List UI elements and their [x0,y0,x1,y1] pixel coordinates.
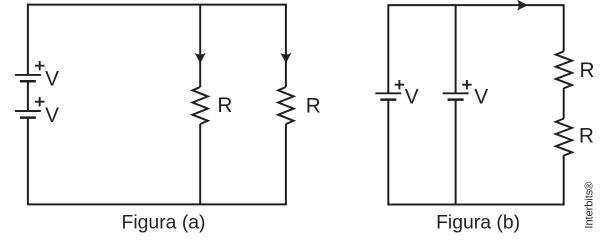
svg-text:Figura (b): Figura (b) [436,211,520,233]
svg-text:Figura (a): Figura (a) [121,211,205,233]
svg-text:R: R [217,94,232,117]
svg-text:R: R [306,94,321,117]
svg-text:R: R [579,125,594,148]
svg-text:V: V [45,68,59,91]
svg-text:R: R [579,59,594,82]
svg-text:V: V [45,104,59,127]
svg-text:Interbits®: Interbits® [584,182,596,229]
svg-text:V: V [405,85,419,108]
svg-text:V: V [474,85,488,108]
